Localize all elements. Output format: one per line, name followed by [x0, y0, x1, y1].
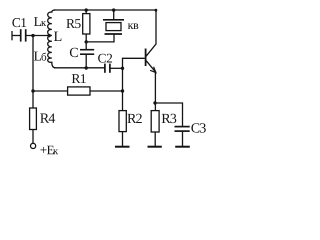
label C1	[12, 18, 26, 27]
ground under R2	[115, 146, 130, 148]
wire C1 to node A	[26, 35, 50, 37]
wire R3 to ground	[154, 132, 156, 146]
inductor L coil Lk upper winding	[48, 10, 56, 36]
dot node E (emitter junction)	[153, 101, 156, 104]
resistor R4	[30, 108, 37, 130]
capacitor C1 input terminal tick	[11, 31, 13, 40]
wire R2 to ground	[122, 132, 124, 147]
node coil tap dot	[47, 34, 50, 37]
wire node B to crystal lead	[86, 34, 114, 42]
resistor R3	[151, 111, 159, 132]
wire left rail down from node A	[32, 36, 34, 109]
dot C bottom on bottom wire	[85, 66, 88, 69]
wire R4 to +Ek terminal	[32, 130, 34, 144]
capacitor C1	[21, 29, 26, 41]
wire R5 bottom lead to capacitor C	[85, 34, 87, 49]
terminal +Ek circle	[30, 143, 35, 148]
wire R1 right	[90, 90, 123, 92]
wire node E to C3	[155, 103, 183, 127]
capacitor C	[80, 50, 94, 55]
label R2	[127, 114, 141, 123]
label C3	[191, 123, 205, 132]
label L	[54, 32, 61, 41]
label Lb	[34, 52, 46, 61]
label +Ek	[40, 146, 58, 155]
dot node D (R1 right)	[121, 89, 124, 92]
wire emitter drop	[154, 72, 156, 111]
ground under R3	[148, 146, 162, 148]
label R3	[162, 114, 177, 123]
label Lk	[34, 17, 46, 26]
wire input lead to C1	[12, 35, 21, 37]
dot at top-right corner	[155, 9, 158, 12]
wire C3 to ground	[182, 131, 184, 146]
label C2	[98, 54, 112, 63]
wire crystal top lead	[113, 10, 115, 20]
dot node B (R5/crystal/C)	[85, 40, 88, 43]
dot top of crystal	[112, 8, 115, 11]
resistor R5	[83, 14, 90, 34]
transistor VT1 emitter with arrow	[146, 61, 156, 73]
label R1	[72, 74, 86, 83]
node A dot	[31, 34, 34, 37]
wire capacitor C bottom lead	[85, 54, 87, 68]
wire base riser	[123, 58, 145, 68]
wire C2 to node C	[110, 67, 123, 69]
capacitor C2	[105, 64, 110, 73]
label C	[70, 48, 78, 57]
label R5	[66, 19, 80, 28]
inductor L coil Lb lower winding	[48, 35, 56, 67]
dot R1 left	[31, 89, 34, 92]
wire R1 left	[33, 90, 68, 92]
resistor R1	[68, 87, 90, 95]
transistor VT1 base bar	[145, 49, 147, 67]
wire top rail	[54, 9, 156, 11]
wire node C down to R2	[122, 68, 124, 110]
dot top of R5	[85, 8, 88, 11]
label kv	[128, 23, 138, 29]
ground under C3	[175, 146, 190, 148]
label R4	[40, 113, 55, 122]
dot node C	[121, 67, 124, 70]
wire R5 top lead	[85, 10, 87, 14]
resistor R2	[119, 111, 126, 132]
wire collector drop	[146, 10, 156, 56]
quartz crystal kv	[103, 20, 124, 34]
capacitor C3	[175, 127, 190, 132]
wire bottom rail left (coil to C2)	[54, 67, 105, 69]
